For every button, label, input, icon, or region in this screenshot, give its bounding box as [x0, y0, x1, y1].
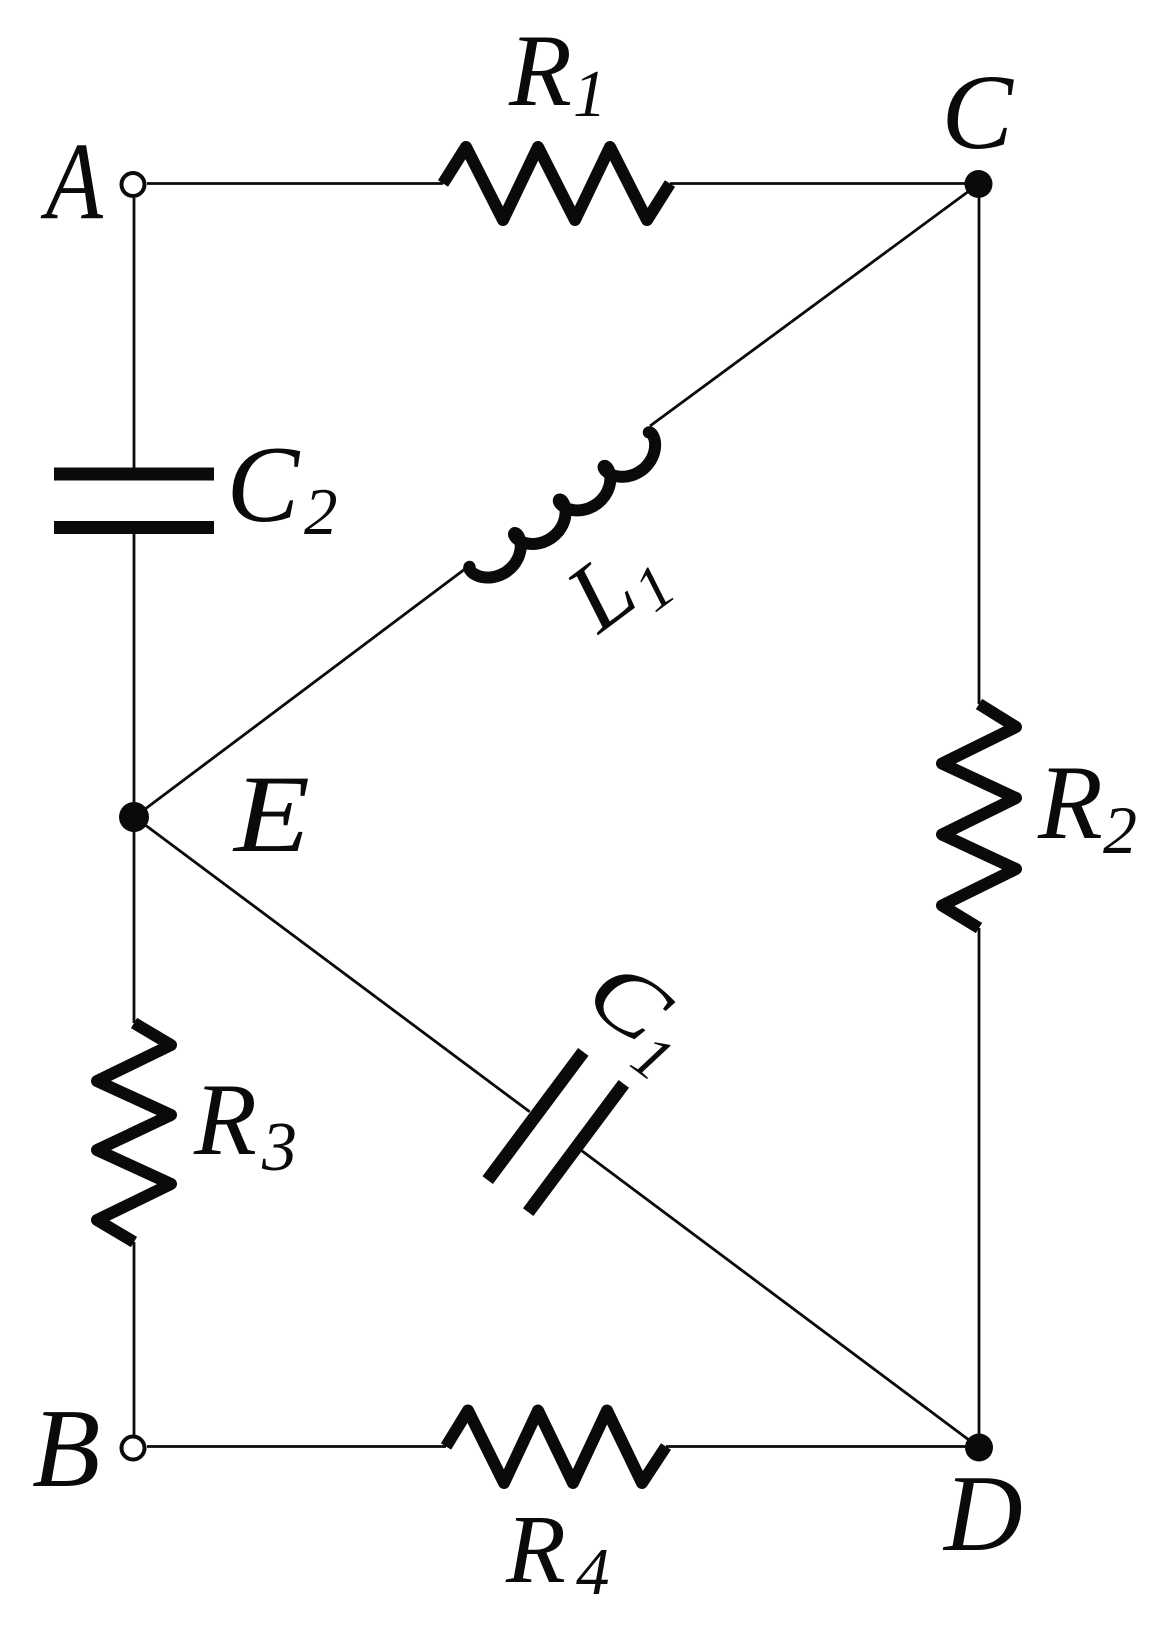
svg-text:2: 2: [1103, 792, 1137, 868]
wire R4 to D (bottom): [666, 1445, 979, 1448]
svg-text:R: R: [505, 1496, 566, 1604]
node B (open terminal): [122, 1437, 145, 1460]
label L1: [546, 513, 688, 660]
label R3: [193, 1063, 297, 1186]
label A: [40, 121, 103, 243]
wire E to C1 (diagonal): [135, 817, 530, 1112]
resistor R2: [942, 704, 1016, 928]
svg-text:3: 3: [261, 1109, 297, 1186]
inductor L1: [468, 431, 665, 588]
resistor R4: [446, 1411, 666, 1484]
wire R3 to B: [133, 1242, 136, 1435]
wire B to R4 (bottom): [147, 1445, 446, 1448]
label C2: [227, 424, 338, 549]
node A (open terminal): [122, 173, 145, 196]
svg-text:4: 4: [576, 1535, 610, 1609]
svg-text:A: A: [40, 121, 103, 243]
svg-text:R: R: [508, 14, 572, 128]
wire A to R1 (top): [147, 182, 443, 185]
wire R2 to D: [978, 928, 981, 1448]
label C1: [560, 940, 713, 1095]
label R2: [1037, 744, 1137, 868]
wire E to L1 (diagonal): [135, 566, 470, 817]
svg-text:B: B: [32, 1387, 100, 1511]
svg-text:1: 1: [573, 57, 607, 131]
wire C2 to E: [133, 534, 136, 817]
label R4: [505, 1496, 610, 1609]
wire C1 to D (diagonal): [582, 1151, 979, 1448]
capacitor C2: [54, 474, 214, 528]
node D (junction dot): [965, 1434, 993, 1462]
wire A down to C2: [133, 198, 136, 468]
svg-text:R: R: [1037, 744, 1103, 861]
wire L1 to C (diagonal): [650, 184, 979, 426]
label R1: [508, 14, 607, 131]
node E (junction dot): [119, 802, 149, 832]
resistor R3: [97, 1023, 171, 1242]
svg-text:2: 2: [304, 475, 338, 549]
node C (junction dot): [965, 170, 993, 198]
wire R1 to C (top): [670, 182, 979, 185]
wire C down to R2: [978, 184, 981, 704]
svg-text:E: E: [232, 753, 310, 875]
svg-text:D: D: [942, 1453, 1023, 1574]
capacitor C1: [488, 1052, 624, 1212]
svg-text:C: C: [227, 424, 301, 545]
svg-text:C: C: [942, 54, 1015, 172]
svg-text:R: R: [193, 1063, 257, 1177]
resistor R1: [443, 147, 670, 220]
wire E to R3: [133, 817, 136, 1023]
